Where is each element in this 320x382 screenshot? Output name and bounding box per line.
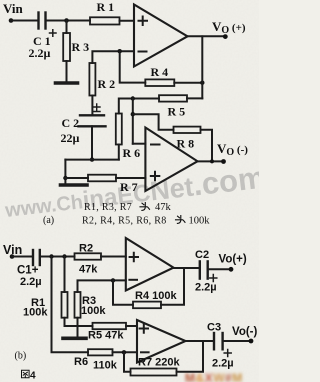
wire U3 output xyxy=(174,267,199,269)
wire node D to R8 xyxy=(133,114,174,130)
svg-text:R4 100k: R4 100k xyxy=(135,290,177,302)
wire Vin to C1 xyxy=(11,20,37,22)
capacitor C2 (b) xyxy=(200,261,208,278)
svg-text:R6: R6 xyxy=(74,356,88,368)
wire R7b to output xyxy=(177,341,204,372)
svg-text:2.2µ: 2.2µ xyxy=(20,276,42,288)
wire Vin to C1b xyxy=(12,256,32,258)
svg-text:47k: 47k xyxy=(155,202,172,213)
junction dot D xyxy=(131,112,135,116)
U2 minus input mark xyxy=(151,144,160,146)
junction dot R7-left xyxy=(63,176,67,180)
svg-text:2.2µ: 2.2µ xyxy=(195,282,217,294)
wire C2b to Vo(+) xyxy=(209,268,231,270)
svg-text:R2, R4, R5, R6, R8: R2, R4, R5, R6, R8 xyxy=(82,216,167,227)
svg-text:Vo(+): Vo(+) xyxy=(219,254,247,266)
wire R6 bottom to rail xyxy=(118,145,120,160)
wire b4 down to R7b xyxy=(124,352,131,372)
wire R4 to feedback column xyxy=(174,82,202,84)
wire R6 top / R5 left xyxy=(119,99,159,114)
node Vin (a) terminal dot xyxy=(9,18,14,23)
resistor R5 (b) xyxy=(93,323,127,329)
op-amp U3 xyxy=(126,238,174,291)
wire R7 to U2 noninverting input xyxy=(116,177,145,179)
op-amp U4 xyxy=(137,320,186,363)
ground (b) xyxy=(63,336,86,340)
wire to R7 xyxy=(65,177,88,179)
svg-text:C 2: C 2 xyxy=(62,116,80,130)
svg-text:47k: 47k xyxy=(79,264,98,276)
svg-text:22µ: 22µ xyxy=(61,131,80,145)
C2 polarity plusminus xyxy=(94,104,101,112)
wire R5b left xyxy=(65,325,93,327)
U1 minus input mark xyxy=(139,51,147,53)
wire C1b to R2b xyxy=(41,256,75,258)
resistor R7 xyxy=(88,175,116,182)
wire R2b to op-amp U3 xyxy=(101,256,126,258)
U4 minus input mark xyxy=(141,351,149,353)
resistor R4 (b) xyxy=(133,302,161,309)
R3 ground lead xyxy=(66,61,68,82)
node Vo(+) terminal dot xyxy=(223,34,228,39)
svg-text:(b): (b) xyxy=(15,351,27,362)
svg-text:100k: 100k xyxy=(189,216,211,227)
node Vo(-) b terminal dot xyxy=(249,339,254,344)
resistor R3 (b) xyxy=(75,292,81,318)
node B junction dot xyxy=(118,49,122,53)
glyph wei (line 1) xyxy=(140,203,150,211)
wire R5b to U4 xyxy=(126,325,137,327)
svg-text:R 3: R 3 xyxy=(72,40,90,54)
wire U4 output xyxy=(186,340,213,342)
capacitor C3 (b) xyxy=(214,333,223,349)
junction dot C2-rail xyxy=(90,157,94,161)
svg-text:100k: 100k xyxy=(23,307,48,319)
C2b plus xyxy=(210,275,217,282)
wire C1 to node A xyxy=(47,20,90,22)
capacitor C1 (a) xyxy=(39,13,46,29)
wire R3b top to inverting wire xyxy=(78,280,126,292)
resistor R1 xyxy=(90,17,120,24)
wire to U2 inverting input xyxy=(133,143,146,145)
svg-text:100k: 100k xyxy=(81,305,106,317)
svg-text:R 4: R 4 xyxy=(151,65,169,79)
svg-text:R 6: R 6 xyxy=(123,146,141,160)
glyph wei (line 2) xyxy=(176,216,186,224)
resistor R4 xyxy=(145,79,174,86)
svg-text:VO (+): VO (+) xyxy=(212,19,246,36)
svg-text:R1, R3, R7: R1, R3, R7 xyxy=(84,202,132,213)
op-amp U1 xyxy=(134,5,188,67)
svg-text:R7 220k: R7 220k xyxy=(138,357,180,369)
wire node C down xyxy=(132,99,134,144)
svg-text:Vin: Vin xyxy=(3,1,24,16)
ground (R3) xyxy=(56,81,78,85)
C3 plus xyxy=(224,350,231,357)
ground rail (a) xyxy=(65,159,118,161)
U3 plus input mark xyxy=(130,253,138,261)
svg-text:C3: C3 xyxy=(207,322,221,334)
resistor R6 (a) xyxy=(116,114,122,145)
wire U2 output xyxy=(198,160,224,162)
op-amp U2 xyxy=(145,128,197,192)
resistor R3 xyxy=(63,33,70,61)
node Vo(+) b terminal dot xyxy=(229,267,234,272)
wire C3 to Vo(-) xyxy=(224,340,251,342)
resistor R2 (b) xyxy=(75,253,102,259)
svg-text:2.2µ: 2.2µ xyxy=(29,46,51,60)
figure label 图4 xyxy=(22,370,30,378)
svg-text:R 2: R 2 xyxy=(98,77,116,91)
U1 plus input mark xyxy=(139,17,148,26)
U2 plus input mark xyxy=(151,172,160,181)
junction dot b4 xyxy=(122,350,126,354)
ground (a bottom) xyxy=(61,183,88,187)
wire U1 output xyxy=(188,35,226,37)
wire R8 to U2 output xyxy=(201,130,213,162)
junction dot C xyxy=(131,96,135,100)
resistor R7 (b) xyxy=(131,369,177,376)
svg-text:R2: R2 xyxy=(79,243,93,255)
resistor R6 (b) xyxy=(88,349,113,355)
capacitor C2 (a) xyxy=(79,115,106,126)
wire R4b to output xyxy=(161,268,184,305)
resistor R2 xyxy=(89,63,95,96)
U4 plus input mark xyxy=(140,324,148,332)
svg-text:VO (-): VO (-) xyxy=(217,141,248,158)
svg-text:(a): (a) xyxy=(43,215,54,226)
svg-text:R 5: R 5 xyxy=(168,105,186,119)
svg-text:C1+: C1+ xyxy=(17,265,39,277)
junction dot R8-output xyxy=(210,159,214,163)
wire b2 down to R1b xyxy=(64,257,66,293)
resistor R5 xyxy=(159,95,187,101)
junction dot b2 xyxy=(62,254,66,258)
node Vin (b) terminal dot xyxy=(10,254,15,259)
U3 minus input mark xyxy=(129,279,137,281)
svg-text:110k: 110k xyxy=(93,360,118,372)
wire rail down xyxy=(64,160,66,184)
wire R3b bottom to ground xyxy=(77,318,79,337)
svg-text:4: 4 xyxy=(30,370,36,381)
resistor R8 xyxy=(174,127,201,133)
wire R6b to U4 inverting xyxy=(113,351,138,353)
capacitor C1 (b) xyxy=(33,250,40,265)
wire R1 to op-amp U1 xyxy=(120,20,135,22)
junction dot b3 xyxy=(111,278,115,282)
wire C2 to ground rail xyxy=(91,126,93,159)
node Vo(-) terminal dot xyxy=(221,159,226,164)
resistor R3 lead xyxy=(66,21,68,34)
feedback column wire xyxy=(201,36,203,98)
wire b3 to R4b xyxy=(113,280,133,304)
svg-text:R 1: R 1 xyxy=(97,0,115,14)
node A junction dot xyxy=(64,18,69,23)
svg-text:R5 47k: R5 47k xyxy=(88,330,124,342)
wire R2 to C2 xyxy=(91,96,93,116)
svg-text:Vo(-): Vo(-) xyxy=(232,326,258,338)
svg-text:2.2µ: 2.2µ xyxy=(212,358,234,370)
svg-text:R 7: R 7 xyxy=(120,180,138,194)
resistor R1 (b) xyxy=(62,292,68,318)
wire R5 right to column xyxy=(187,97,202,99)
wire node B to R4 xyxy=(120,51,146,82)
wire U1 inverting input xyxy=(92,51,134,63)
wire R1b bottom xyxy=(65,318,76,326)
junction dot R4-column xyxy=(200,81,204,85)
C1 polarity plus xyxy=(50,30,57,36)
junction dot b1 xyxy=(49,254,53,258)
site logo bottom right xyxy=(185,371,255,382)
wire b1 down to R6b row xyxy=(52,257,89,353)
svg-text:C2: C2 xyxy=(195,249,209,261)
